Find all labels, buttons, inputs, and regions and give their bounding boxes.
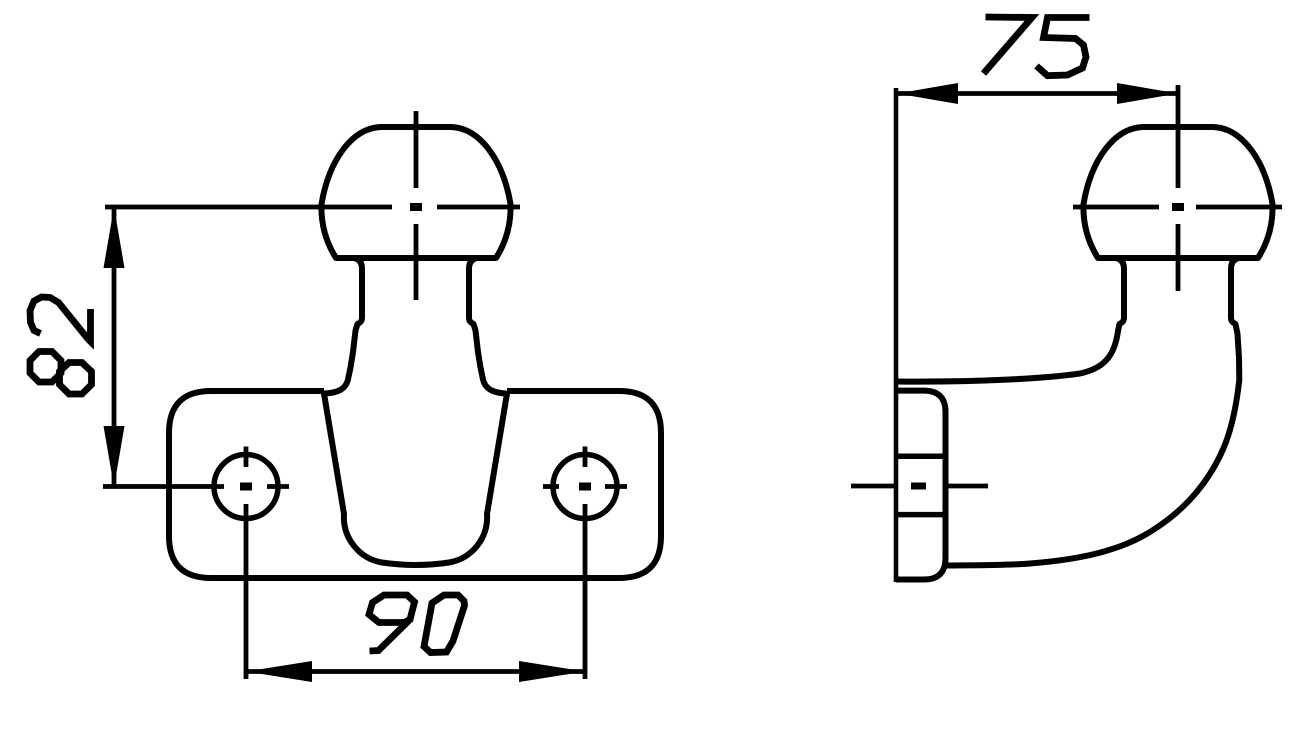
centerline vertical left hole (244, 447, 249, 468)
center dot right hole (579, 483, 591, 491)
arrowhead 90 left (246, 661, 312, 682)
dimension line 75 (897, 91, 1178, 96)
arrowhead 82 up (104, 207, 125, 268)
center dash hole side view (911, 483, 926, 490)
ball centerline horizontal side view (1073, 205, 1159, 210)
flange plate side view (896, 391, 946, 580)
centerline hole side view (851, 484, 897, 489)
dimension text 75 (984, 17, 1090, 76)
extension line 90 left (244, 504, 249, 679)
ball centerline horizontal + dim82 extension (105, 205, 392, 210)
neck and U-cutout front view (324, 258, 507, 565)
tow ball front view (321, 127, 510, 258)
arrowhead 82 down (104, 426, 125, 487)
center dot ball side (1172, 203, 1184, 211)
arrowhead 75 right (1117, 83, 1178, 104)
arrowhead 75 left (897, 83, 958, 104)
center dot left hole (240, 483, 252, 491)
bolt hole right (553, 455, 617, 519)
neck right side and elbow outer curve side view (944, 258, 1239, 566)
flange plate front view (169, 391, 661, 578)
centerline vertical right hole (583, 447, 588, 468)
center dot ball front (410, 203, 422, 211)
ball centerline vertical side view + dim75 extension (1176, 85, 1181, 188)
dimension line 82 (112, 207, 117, 487)
ball centerline vertical (414, 111, 419, 188)
centerline horizontal left hole + dim82 extension (103, 484, 224, 489)
neck left side and arm top edge side view (896, 258, 1124, 382)
bolt hole left (214, 455, 278, 519)
centerline horizontal right hole (543, 484, 559, 489)
hole edge lines side view (896, 454, 946, 460)
mounting face line side view (894, 88, 899, 582)
arrowhead 90 right (519, 661, 585, 682)
extension line 90 right (583, 504, 588, 679)
dimension text 90 (369, 595, 465, 653)
tow ball side view (1083, 127, 1272, 258)
dimension text 82 (rotated) (30, 297, 92, 394)
dimension line 90 (246, 669, 585, 674)
